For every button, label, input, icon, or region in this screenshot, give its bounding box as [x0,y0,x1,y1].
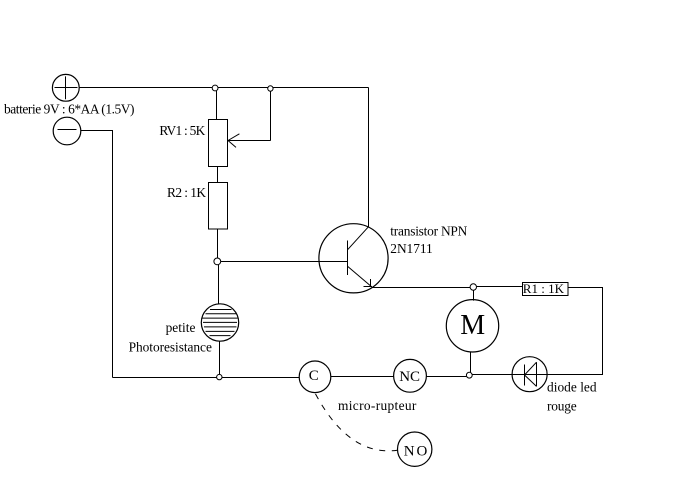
svg-text:batterie 9V : 6*AA (1.5V): batterie 9V : 6*AA (1.5V) [4,102,135,117]
svg-text:Photoresistance: Photoresistance [129,340,212,355]
svg-text:R1 : 1K: R1 : 1K [523,281,565,296]
wire node to RV1 top [216,91,218,120]
wire motor bottom lead [470,352,472,373]
wire collector drop vertical [368,88,370,228]
wire motor top lead [473,290,475,300]
node base junction [214,258,221,265]
motor M body [446,300,498,352]
wire base junction to transistor base [221,261,348,263]
wire top rail from + terminal to corner [79,87,368,89]
node top rail RV1 tap [212,85,218,91]
potentiometer RV1 body [209,120,228,167]
wire bottom rail to switch C [113,377,300,379]
potentiometer RV1 wiper arm [228,91,271,147]
wire motor node to LED [472,374,512,376]
wire LED to right corner [547,374,603,376]
svg-text:rouge: rouge [547,398,577,413]
dashed lever C to NO [315,393,398,451]
svg-text:micro-rupteur: micro-rupteur [338,398,417,413]
transistor Q1 circle [319,224,388,293]
node bottom rail photoresistor tap [217,374,222,379]
transistor Q1 emitter arrowhead [364,279,372,287]
svg-text:petite: petite [166,320,196,335]
wire right vertical rail [602,288,604,375]
node top rail wiper tap [268,86,273,91]
wire base junction to photoresistor [218,265,220,304]
svg-text:RV1 : 5K: RV1 : 5K [159,123,205,138]
wire R1 to right corner [568,287,603,289]
battery positive terminal [52,74,79,101]
transistor Q1 base bar [347,241,349,276]
photoresistor body [201,304,238,341]
switch contact NO [398,432,432,466]
node bottom rail motor tap [466,372,472,378]
svg-text:2N1711: 2N1711 [390,241,432,256]
wire photoresistor to bottom rail [219,341,221,374]
svg-text:transistor NPN: transistor NPN [390,224,467,239]
resistor R1 body [523,283,569,296]
svg-text:NC: NC [399,369,420,385]
wire NC to motor node [426,376,466,378]
svg-text:diode led: diode led [547,379,597,394]
svg-text:NO: NO [404,443,428,459]
wire from - terminal [81,130,113,132]
wire RV1 to R2 [217,167,219,183]
wire emitter rail to R1 [477,286,523,288]
wire C to NC [331,376,394,378]
wire R2 to base node [217,229,219,258]
svg-text:R2 : 1K: R2 : 1K [167,185,206,200]
switch contact NC [394,359,427,392]
LED triangle [525,362,537,386]
node emitter rail motor tap [470,284,476,290]
LED body circle [512,357,547,392]
LED cathode bar [524,365,526,386]
svg-text:M: M [460,310,485,341]
transistor Q1 emitter lead [348,266,372,287]
resistor R2 body [209,183,228,230]
battery negative terminal [53,117,81,145]
wire left vertical rail [112,131,114,378]
switch contact C [299,361,331,393]
transistor Q1 collector lead [348,227,369,250]
wire emitter rail to motor node [372,287,470,289]
svg-text:C: C [309,368,319,384]
wire through LED [512,374,547,376]
